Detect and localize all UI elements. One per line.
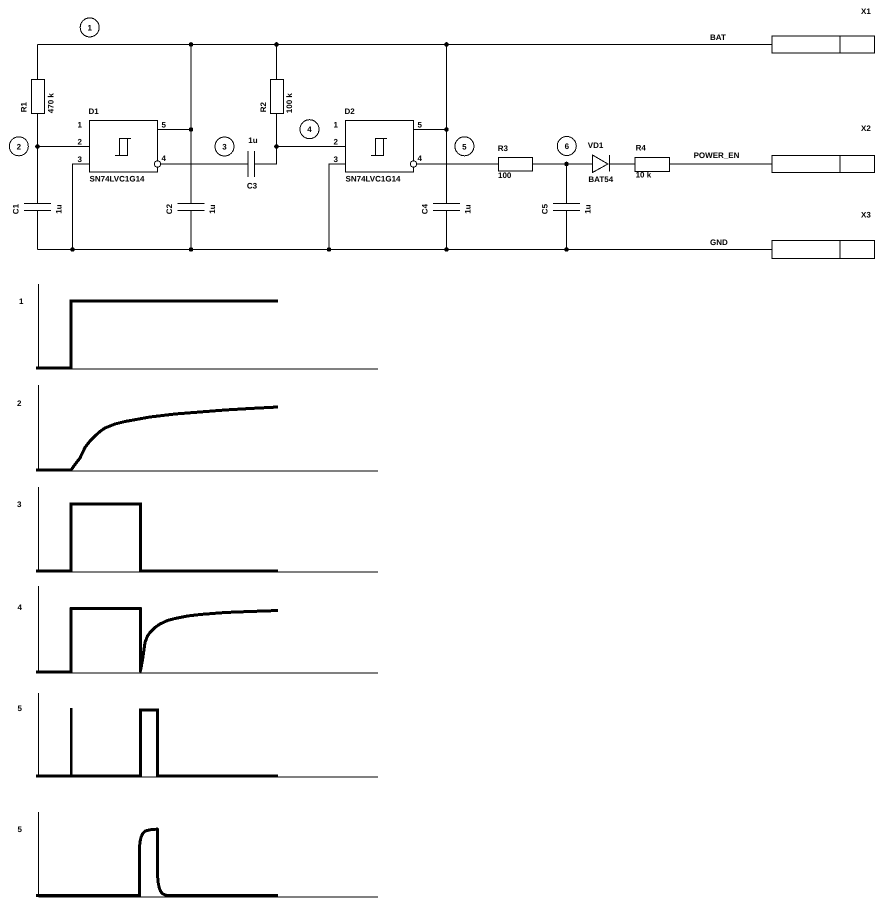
svg-text:5: 5 xyxy=(18,825,23,834)
svg-text:D2: D2 xyxy=(345,107,356,116)
svg-text:3: 3 xyxy=(17,500,22,509)
svg-text:C4: C4 xyxy=(420,203,429,214)
svg-text:X2: X2 xyxy=(861,124,871,133)
svg-text:C2: C2 xyxy=(165,203,174,214)
svg-text:2: 2 xyxy=(17,142,22,151)
svg-text:4: 4 xyxy=(418,154,423,163)
svg-text:VD1: VD1 xyxy=(588,141,604,150)
svg-text:2: 2 xyxy=(334,138,339,147)
svg-text:2: 2 xyxy=(78,138,83,147)
svg-text:1u: 1u xyxy=(55,204,64,213)
svg-text:R2: R2 xyxy=(259,102,268,113)
svg-text:BAT: BAT xyxy=(710,33,726,42)
svg-text:4: 4 xyxy=(307,125,312,134)
svg-text:C5: C5 xyxy=(540,203,549,214)
svg-text:470 k: 470 k xyxy=(47,93,56,114)
svg-text:10 k: 10 k xyxy=(636,170,652,179)
svg-text:R4: R4 xyxy=(636,144,647,153)
svg-text:1: 1 xyxy=(334,121,339,130)
svg-text:R3: R3 xyxy=(498,144,509,153)
svg-text:6: 6 xyxy=(565,142,570,151)
svg-text:3: 3 xyxy=(78,155,83,164)
svg-text:C3: C3 xyxy=(247,181,258,190)
svg-text:5: 5 xyxy=(418,121,423,130)
svg-text:SN74LVC1G14: SN74LVC1G14 xyxy=(346,175,402,184)
svg-text:1u: 1u xyxy=(208,204,217,213)
svg-text:D1: D1 xyxy=(89,107,100,116)
svg-text:SN74LVC1G14: SN74LVC1G14 xyxy=(90,175,146,184)
svg-text:C1: C1 xyxy=(11,203,20,214)
svg-text:100: 100 xyxy=(498,171,512,180)
svg-text:X1: X1 xyxy=(861,7,871,16)
svg-text:BAT54: BAT54 xyxy=(588,175,613,184)
svg-text:100 k: 100 k xyxy=(285,93,294,114)
svg-text:3: 3 xyxy=(222,143,227,152)
svg-text:1u: 1u xyxy=(248,136,257,145)
svg-text:1: 1 xyxy=(78,121,83,130)
svg-text:5: 5 xyxy=(18,704,23,713)
svg-text:4: 4 xyxy=(18,603,23,612)
svg-text:POWER_EN: POWER_EN xyxy=(694,151,740,160)
svg-text:1: 1 xyxy=(87,23,92,32)
svg-text:5: 5 xyxy=(162,121,167,130)
svg-text:1: 1 xyxy=(19,297,24,306)
svg-text:GND: GND xyxy=(710,238,728,247)
svg-text:1u: 1u xyxy=(584,204,593,213)
svg-text:5: 5 xyxy=(462,142,467,151)
svg-text:1u: 1u xyxy=(464,204,473,213)
svg-text:3: 3 xyxy=(334,155,339,164)
svg-text:R1: R1 xyxy=(20,102,29,113)
svg-text:2: 2 xyxy=(17,399,22,408)
svg-text:X3: X3 xyxy=(861,211,871,220)
svg-text:4: 4 xyxy=(162,154,167,163)
